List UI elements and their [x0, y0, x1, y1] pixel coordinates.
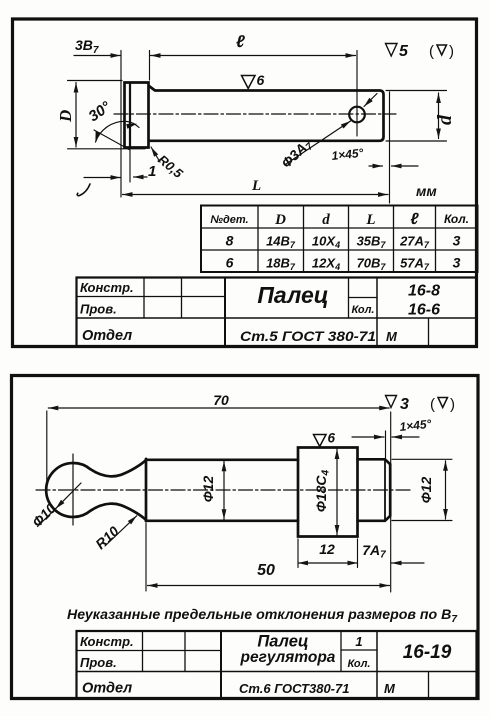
- svg-text:ℓ: ℓ: [236, 32, 245, 51]
- end section with chamfer: [358, 459, 391, 521]
- dimension F12 shaft: [223, 461, 225, 519]
- dimension 12: [298, 562, 358, 564]
- leader F10: [56, 483, 81, 509]
- svg-text:(: (: [430, 396, 435, 413]
- svg-text:№дет.: №дет.: [210, 214, 248, 226]
- svg-text:8: 8: [226, 233, 234, 249]
- dimension 7A7 arrow: [392, 562, 425, 564]
- roughness (nabla) bottom: [438, 398, 448, 408]
- sheet frame (bottom drawing): [12, 376, 479, 699]
- ball head with neck: [46, 460, 146, 521]
- svg-text:5: 5: [399, 43, 409, 60]
- svg-text:27А7: 27А7: [399, 234, 430, 251]
- svg-text:Отдел: Отдел: [82, 681, 132, 697]
- svg-text:57А7: 57А7: [400, 256, 430, 273]
- extension line: right end: [389, 92, 391, 203]
- svg-text:12Х4: 12Х4: [312, 256, 340, 273]
- svg-text:6: 6: [257, 72, 265, 88]
- extension line: head left face: [120, 51, 122, 198]
- dimension F12 right: [392, 459, 452, 520]
- svg-text:35В7: 35В7: [357, 234, 387, 251]
- svg-text:d: d: [434, 114, 456, 125]
- dimension 1x45 (right chamfer): [369, 165, 383, 167]
- dimension d: [438, 93, 440, 139]
- svg-text:14В7: 14В7: [266, 234, 296, 251]
- axis center line: [114, 113, 396, 115]
- svg-text:Пров.: Пров.: [80, 302, 117, 317]
- roughness mark nabla-5: [386, 44, 398, 57]
- svg-text:Палец: Палец: [257, 633, 308, 651]
- dimension 50: [148, 585, 390, 587]
- svg-text:70В7: 70В7: [357, 256, 387, 273]
- svg-text:1×45°: 1×45°: [399, 417, 432, 434]
- svg-text:1: 1: [148, 163, 156, 180]
- svg-text:Неуказанные предельные отклоне: Неуказанные предельные отклонения размер…: [67, 606, 457, 625]
- svg-text:ℓ: ℓ: [410, 211, 419, 228]
- cross hole: [349, 107, 365, 123]
- svg-text:3: 3: [453, 233, 461, 249]
- extension line: chamfer: [129, 150, 131, 182]
- shaft left face: [145, 459, 148, 521]
- svg-text:16-6: 16-6: [408, 302, 440, 319]
- collar (wide section): [298, 448, 358, 537]
- R0.5 leader: [151, 147, 160, 162]
- dimension 70: [48, 407, 389, 409]
- leader R10: [105, 516, 137, 546]
- svg-text:Палец: Палец: [257, 282, 328, 308]
- svg-text:Отдел: Отдел: [82, 328, 132, 344]
- svg-text:D: D: [274, 212, 286, 228]
- svg-text:12: 12: [319, 541, 335, 557]
- extension lines bottom sheet: [46, 411, 48, 484]
- svg-text:Ф18С4: Ф18С4: [313, 469, 332, 512]
- dimension L: [123, 194, 389, 196]
- svg-text:М: М: [384, 681, 396, 696]
- svg-text:): ): [450, 396, 455, 413]
- hole vertical center line / extension: [356, 51, 358, 137]
- leader F3A7: [286, 121, 351, 164]
- svg-text:L: L: [365, 212, 375, 228]
- axis center line: [36, 489, 412, 491]
- svg-text:16-8: 16-8: [408, 283, 440, 300]
- dimension 3B7: [74, 55, 121, 57]
- svg-text:30°: 30°: [86, 98, 115, 126]
- svg-text:1×45°: 1×45°: [331, 146, 364, 163]
- svg-text:Пров.: Пров.: [80, 655, 117, 670]
- chamfer boundary line: [384, 459, 386, 521]
- svg-text:3: 3: [453, 255, 461, 271]
- svg-text:R0,5: R0,5: [155, 152, 186, 182]
- svg-text:Ст.6 ГОСТ380-71: Ст.6 ГОСТ380-71: [239, 681, 349, 696]
- 30 degree leg line: [94, 130, 130, 150]
- svg-text:Констр.: Констр.: [80, 634, 134, 649]
- svg-text:6: 6: [328, 431, 336, 446]
- 30 degree arc: [96, 121, 140, 142]
- svg-text:мм: мм: [416, 183, 437, 199]
- title block (top sheet): [77, 278, 477, 347]
- svg-text:d: d: [322, 212, 330, 228]
- svg-text:7А7: 7А7: [362, 542, 386, 561]
- svg-text:70: 70: [213, 392, 229, 408]
- svg-text:L: L: [251, 178, 261, 194]
- svg-text:Констр.: Констр.: [80, 280, 134, 295]
- head chamfer edge line: [129, 83, 131, 147]
- svg-text:Ст.5 ГОСТ 380-71: Ст.5 ГОСТ 380-71: [240, 328, 376, 344]
- svg-text:Ф12: Ф12: [200, 476, 216, 503]
- svg-text:D: D: [56, 110, 75, 123]
- roughness nabla-3: [386, 396, 397, 408]
- svg-text:Кол.: Кол.: [444, 212, 469, 226]
- roughness nabla-6 on collar: [314, 435, 327, 447]
- ball vertical center line: [72, 454, 74, 525]
- main shaft: [146, 460, 298, 521]
- roughness mark nabla-6 on shaft: [242, 76, 256, 89]
- svg-text:Ф12: Ф12: [418, 477, 434, 504]
- dimension 1 (head chamfer): [84, 177, 121, 179]
- svg-text:(: (: [429, 43, 434, 60]
- svg-text:3B7: 3B7: [75, 37, 99, 56]
- svg-text:Кол.: Кол.: [348, 658, 371, 670]
- parameter table: [201, 206, 478, 273]
- svg-text:10Х4: 10Х4: [312, 234, 340, 251]
- extension line: head right face: [149, 51, 151, 81]
- svg-text:50: 50: [257, 562, 275, 579]
- dimension F18C4: [336, 449, 338, 535]
- svg-text:регулятора: регулятора: [240, 649, 336, 666]
- svg-text:М: М: [386, 329, 398, 344]
- decorative hook: [77, 184, 90, 196]
- svg-text:R10: R10: [92, 523, 122, 552]
- svg-text:18В7: 18В7: [266, 256, 296, 273]
- title block (bottom sheet): [77, 631, 477, 699]
- roughness mark (nabla) parenthesized: [437, 45, 447, 55]
- dimension 1x45 (bottom): [352, 436, 384, 438]
- svg-text:6: 6: [226, 255, 234, 271]
- pin shaft outline: [149, 86, 384, 141]
- svg-text:): ): [449, 43, 454, 60]
- svg-text:1: 1: [355, 634, 362, 649]
- svg-text:Ф10: Ф10: [29, 500, 59, 530]
- svg-text:3: 3: [400, 396, 409, 413]
- svg-text:Кол.: Кол.: [352, 304, 375, 316]
- dimension D: [75, 83, 77, 148]
- pin head (top view): [125, 83, 149, 148]
- dimension l (script) line: [151, 55, 356, 57]
- svg-text:16-19: 16-19: [403, 642, 452, 663]
- sheet frame (top drawing): [13, 19, 477, 347]
